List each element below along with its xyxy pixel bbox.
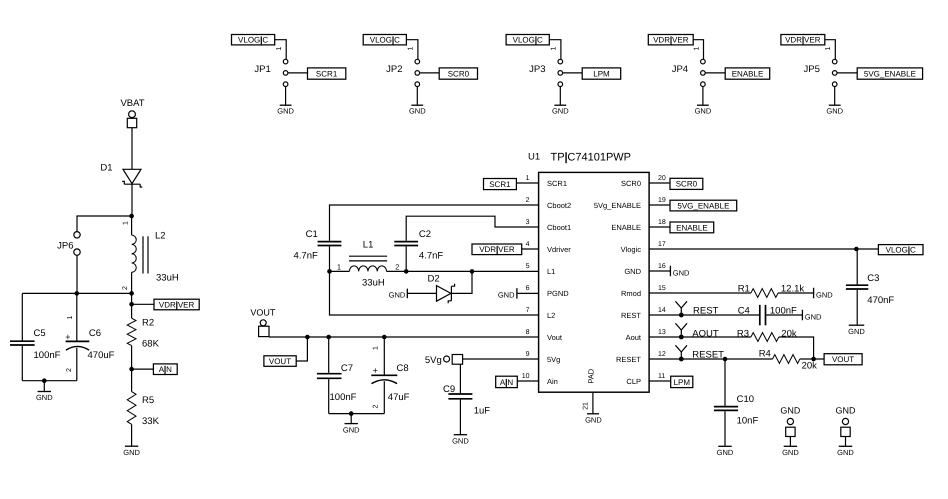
wire JP4 pin2 to ENABLE	[705, 72, 725, 74]
svg-text:470nF: 470nF	[867, 295, 894, 306]
svg-text:21: 21	[582, 402, 589, 410]
capacitor C5 100nF	[10, 293, 61, 380]
svg-text:RESET: RESET	[616, 355, 641, 364]
net label AIN (left)	[153, 364, 177, 375]
ground at JP5	[826, 105, 843, 115]
svg-text:LPM: LPM	[593, 69, 610, 78]
capacitor C7 100nF	[317, 337, 357, 414]
svg-text:2: 2	[395, 263, 399, 272]
node junction C7-C8 ground	[349, 411, 354, 416]
test point RESET	[675, 345, 687, 361]
svg-text:L2: L2	[155, 230, 166, 241]
svg-text:C9: C9	[443, 384, 455, 395]
node junction rail/C6	[75, 291, 80, 296]
node L1 pin1 junction	[327, 269, 332, 274]
svg-text:JP2: JP2	[386, 64, 402, 75]
svg-text:VDR|VER: VDR|VER	[479, 245, 515, 254]
svg-text:C2: C2	[419, 229, 431, 240]
svg-text:TP|C74101PWP: TP|C74101PWP	[551, 152, 632, 164]
svg-text:9: 9	[526, 351, 530, 358]
svg-text:SCR1: SCR1	[316, 69, 338, 78]
connector J-VOUT (VOUT post)	[250, 307, 276, 336]
svg-text:GND: GND	[826, 107, 843, 116]
svg-text:1: 1	[67, 315, 74, 319]
wire JP2 pin2 to SCR0	[420, 72, 440, 74]
pin 17 Vlogic (name+number)	[621, 241, 666, 254]
svg-text:U1: U1	[528, 152, 540, 163]
svg-text:C7: C7	[341, 363, 353, 374]
connector J-GND1 (ground post)	[780, 406, 801, 447]
svg-text:20k: 20k	[781, 328, 797, 339]
wire JP4 pin1	[693, 40, 703, 60]
svg-text:PGND: PGND	[547, 289, 569, 298]
svg-text:GND: GND	[123, 448, 140, 457]
pin 16 GND (name+number)	[624, 263, 666, 276]
svg-text:100nF: 100nF	[770, 306, 797, 317]
svg-text:C5: C5	[34, 328, 46, 339]
resistor R3 20k	[737, 328, 814, 359]
wire pin 6	[517, 292, 539, 294]
net label VLOGIC at JP1	[232, 35, 275, 45]
pin 5 L1 (name+number)	[526, 263, 556, 276]
jumper JP6	[57, 216, 131, 293]
svg-text:1uF: 1uF	[474, 406, 491, 417]
node junction at D1/L2/JP6	[129, 214, 134, 219]
svg-text:6: 6	[526, 285, 530, 292]
svg-text:3: 3	[526, 219, 530, 226]
svg-text:VDR|VER: VDR|VER	[653, 36, 689, 45]
svg-text:Vdriver: Vdriver	[547, 245, 571, 254]
wire D1 to node VBAT_SW	[131, 184, 133, 216]
node RESET/C10 junction	[723, 357, 728, 362]
connector J-VBAT (VBAT input post)	[120, 98, 144, 128]
svg-text:20: 20	[658, 175, 666, 182]
svg-text:47uF: 47uF	[388, 392, 410, 403]
svg-text:RESET: RESET	[692, 350, 724, 361]
svg-text:1: 1	[408, 46, 415, 50]
svg-text:1: 1	[693, 46, 700, 50]
ground at JP2	[409, 105, 426, 115]
svg-text:33uH: 33uH	[362, 277, 385, 288]
net label 5VG_ENABLE at JP5	[857, 68, 922, 79]
ground at JP3	[552, 105, 569, 115]
net label ENABLE at JP4	[725, 68, 770, 79]
svg-text:Vlogic: Vlogic	[621, 245, 642, 254]
net label VDRIVER at pin 4	[472, 244, 522, 255]
wire C5/C6 bottom rail	[22, 380, 77, 382]
ground below C10	[717, 446, 734, 457]
svg-text:GND: GND	[848, 327, 865, 336]
svg-text:CLP: CLP	[626, 377, 641, 386]
svg-text:Cboot2: Cboot2	[547, 201, 571, 210]
svg-text:A|N: A|N	[500, 378, 513, 387]
pin 20 SCR0 (name+number)	[621, 175, 666, 188]
node junction VDRIVER tap	[129, 302, 134, 307]
svg-text:GND: GND	[717, 448, 734, 457]
svg-text:GND: GND	[585, 416, 602, 425]
svg-text:GND: GND	[277, 107, 294, 116]
svg-text:R5: R5	[142, 395, 154, 406]
net label VLOGIC at pin 17	[878, 245, 923, 255]
svg-text:REST: REST	[693, 306, 719, 317]
svg-text:R1: R1	[738, 283, 750, 294]
resistor R4 20k	[759, 348, 824, 371]
net label VOUT (left)	[264, 356, 296, 367]
svg-text:100nF: 100nF	[34, 350, 61, 361]
svg-text:GND: GND	[816, 290, 833, 299]
svg-text:VOUT: VOUT	[269, 357, 291, 366]
svg-text:SCR0: SCR0	[676, 180, 698, 189]
svg-text:GND: GND	[343, 425, 360, 434]
svg-text:13: 13	[658, 329, 666, 336]
svg-text:L1: L1	[363, 240, 374, 251]
svg-text:AOUT: AOUT	[692, 328, 719, 339]
net label VLOGIC at JP3	[506, 35, 549, 45]
pin 21 PAD to ground	[582, 392, 602, 424]
node junction AIN tap	[129, 367, 134, 372]
svg-text:JP4: JP4	[672, 64, 688, 75]
svg-text:GND: GND	[836, 406, 857, 416]
op-amp U1 TPIC74101PWP (IC body)	[528, 152, 649, 393]
wire JP5 pin3 to ground	[834, 87, 836, 105]
wire pin 10	[517, 380, 538, 382]
svg-text:VLOG|C: VLOG|C	[513, 36, 543, 45]
pin 7 L2 (name+number)	[526, 307, 556, 320]
svg-text:SCR0: SCR0	[621, 179, 641, 188]
svg-text:R2: R2	[142, 318, 154, 329]
node L1 pin2 junction	[404, 269, 409, 274]
svg-text:ENABLE: ENABLE	[611, 223, 641, 232]
net label VDRIVER at JP4	[648, 35, 693, 45]
wire pin 8 Vout row	[269, 336, 539, 338]
svg-text:VLOG|C: VLOG|C	[238, 36, 268, 45]
svg-text:ENABLE: ENABLE	[676, 223, 708, 232]
pin 12 RESET (name+number)	[616, 351, 666, 364]
test point REST	[675, 301, 687, 317]
svg-text:GND: GND	[673, 268, 690, 277]
svg-text:SCR0: SCR0	[448, 69, 470, 78]
svg-text:10nF: 10nF	[737, 416, 759, 427]
jumper JP1 (3-pin header)	[254, 59, 287, 86]
diode D2 (zener) with ground	[389, 271, 472, 303]
svg-text:5Vg: 5Vg	[425, 355, 442, 366]
net label SCR0 at pin 20	[670, 178, 703, 189]
svg-text:C10: C10	[737, 394, 754, 405]
pin 9 5Vg (name+number)	[526, 351, 561, 364]
wire pin 18	[649, 226, 670, 228]
svg-text:1: 1	[372, 346, 379, 350]
svg-text:VLOG|C: VLOG|C	[886, 246, 916, 255]
svg-text:+: +	[373, 366, 378, 376]
wire pin 9 5Vg row	[463, 358, 539, 360]
node Vout/C7 junction	[326, 335, 331, 340]
svg-text:REST: REST	[621, 311, 641, 320]
capacitor C1 4.7nF	[294, 229, 342, 271]
pin 11 CLP (name+number)	[626, 373, 665, 386]
svg-text:2: 2	[66, 368, 73, 372]
svg-text:1: 1	[276, 46, 283, 50]
inductor L1 33uH	[330, 240, 407, 289]
svg-text:5Vg_ENABLE: 5Vg_ENABLE	[594, 201, 641, 210]
wire VBAT to D1	[131, 128, 133, 170]
svg-text:VLOG|C: VLOG|C	[370, 36, 400, 45]
svg-text:100nF: 100nF	[330, 392, 357, 403]
pin 18 ENABLE (name+number)	[611, 219, 666, 232]
svg-text:5: 5	[526, 263, 530, 270]
svg-text:2: 2	[372, 404, 379, 408]
svg-text:GND: GND	[389, 291, 406, 300]
jumper JP4 (3-pin header)	[672, 59, 705, 86]
svg-text:GND: GND	[782, 448, 799, 457]
svg-text:Cboot1: Cboot1	[547, 223, 571, 232]
svg-text:GND: GND	[837, 448, 854, 457]
wire pin 4	[522, 248, 539, 250]
pin 15 Rmod (name+number)	[621, 285, 666, 298]
connector J-5Vg (5Vg post)	[425, 355, 463, 367]
ground stub at pin 6 PGND	[498, 288, 517, 300]
svg-text:1: 1	[526, 175, 530, 182]
svg-text:GND: GND	[452, 436, 469, 445]
wire pin 20	[649, 182, 670, 184]
jumper JP2 (3-pin header)	[386, 59, 419, 86]
svg-text:1: 1	[337, 263, 341, 272]
wire JP4 pin3 to ground	[702, 87, 704, 105]
svg-text:470uF: 470uF	[88, 350, 115, 361]
svg-text:JP6: JP6	[57, 240, 73, 251]
svg-text:GND: GND	[36, 393, 53, 402]
svg-text:VOUT: VOUT	[250, 307, 276, 317]
net label VDRIVER (left)	[154, 299, 199, 310]
svg-text:2: 2	[526, 197, 530, 204]
ground stub after R1	[814, 288, 834, 300]
pin 10 Ain (name+number)	[522, 373, 558, 386]
node Vout/C8 junction	[382, 335, 387, 340]
ground at JP4	[695, 105, 712, 115]
svg-text:12.1k: 12.1k	[781, 283, 804, 294]
pin 8 Vout (name+number)	[526, 329, 563, 342]
jumper JP5 (3-pin header)	[804, 59, 837, 86]
wire to VOUT net label	[296, 337, 307, 361]
diode D1 (zener)	[100, 163, 142, 188]
capacitor C9 1uF	[443, 364, 490, 434]
inductor L2 33uH	[122, 216, 179, 293]
wire pin 2 Cboot2 to C1	[330, 205, 539, 241]
node junction rail/L2	[129, 291, 134, 296]
svg-text:C3: C3	[867, 273, 879, 284]
node Vlogic/C3 junction	[854, 247, 859, 252]
pin 13 Aout (name+number)	[626, 329, 666, 342]
node junction C5-C6 ground	[42, 378, 47, 383]
svg-text:GND: GND	[805, 312, 822, 321]
svg-text:D2: D2	[428, 274, 440, 285]
capacitor C2 4.7nF	[394, 229, 443, 271]
wire pin 5 L1 row	[406, 270, 538, 272]
svg-text:33uH: 33uH	[156, 273, 179, 284]
wire JP5 pin2 to 5VG_ENABLE	[837, 72, 857, 74]
svg-text:5VG_ENABLE: 5VG_ENABLE	[864, 69, 916, 78]
net label VLOGIC at JP2	[363, 35, 406, 45]
svg-text:D1: D1	[100, 163, 112, 174]
wire JP2 pin3 to ground	[416, 87, 418, 105]
svg-text:VBAT: VBAT	[120, 98, 144, 109]
svg-text:JP5: JP5	[804, 64, 820, 75]
jumper JP3 (3-pin header)	[529, 59, 562, 86]
wire pin 17 Vlogic	[649, 248, 878, 250]
pin 19 5Vg_ENABLE (name+number)	[594, 197, 666, 210]
svg-text:C8: C8	[397, 363, 409, 374]
wire JP3 pin3 to ground	[559, 87, 561, 105]
svg-text:68K: 68K	[142, 339, 160, 350]
net label ENABLE at pin 18	[670, 222, 714, 233]
pin 2 Cboot2 (name+number)	[526, 197, 572, 210]
wire pin 11	[649, 380, 671, 382]
svg-text:GND: GND	[498, 291, 515, 300]
wire pin 19	[649, 204, 670, 206]
net label SCR1 at JP1	[308, 68, 346, 79]
wire L2 to VDRIVER node	[131, 293, 133, 304]
svg-text:17: 17	[658, 241, 666, 248]
svg-text:VOUT: VOUT	[832, 355, 854, 364]
wire JP2 pin1	[406, 40, 418, 60]
svg-text:SCR1: SCR1	[489, 180, 511, 189]
test point AOUT	[675, 323, 687, 339]
svg-text:4.7nF: 4.7nF	[419, 250, 443, 261]
svg-text:4.7nF: 4.7nF	[294, 250, 318, 261]
svg-text:GND: GND	[409, 107, 426, 116]
ground below connector J-GND2	[837, 446, 854, 457]
svg-text:1: 1	[825, 46, 832, 50]
wire tap to VDRIVER label	[132, 303, 154, 305]
svg-text:1: 1	[123, 221, 130, 225]
svg-text:8: 8	[526, 329, 530, 336]
wire pin 12 RESET row	[649, 350, 772, 361]
ground stub at pin 16	[649, 266, 690, 278]
resistor R1 12.1k at pin 15 Rmod	[649, 283, 814, 297]
svg-text:R4: R4	[759, 348, 771, 359]
wire JP3 pin1	[549, 40, 561, 60]
svg-text:C6: C6	[89, 328, 101, 339]
net label VOUT at pin 12	[824, 354, 862, 365]
svg-text:A|N: A|N	[159, 365, 172, 374]
wire rail VBAT_SW to C5/C6	[22, 292, 131, 294]
pin 4 Vdriver (name+number)	[526, 241, 572, 254]
node Vout/VOUT-label junction	[305, 335, 310, 340]
svg-text:C1: C1	[306, 229, 318, 240]
wire C7/C8 bottom rail	[329, 413, 385, 415]
net label 5VG_ENABLE at pin 19	[670, 200, 737, 211]
ground below connector J-GND1	[782, 446, 799, 457]
pin 1 SCR1 (name+number)	[526, 175, 567, 188]
capacitor C6 470uF (polarized)	[65, 293, 114, 380]
wire pin 14 REST row	[649, 306, 760, 317]
pin 6 PGND (name+number)	[526, 285, 570, 298]
net label LPM at pin 11	[671, 376, 693, 387]
svg-text:16: 16	[658, 263, 666, 270]
svg-text:4: 4	[526, 241, 530, 248]
pin 14 REST (name+number)	[621, 307, 666, 320]
svg-text:Vout: Vout	[547, 333, 563, 342]
svg-text:JP3: JP3	[529, 64, 545, 75]
ground below C7/C8	[343, 414, 360, 435]
svg-text:VDR|VER: VDR|VER	[159, 300, 195, 309]
wire pin 1	[516, 182, 538, 184]
net label AIN at pin 10	[496, 376, 518, 387]
svg-text:12: 12	[658, 351, 666, 358]
svg-text:LPM: LPM	[674, 378, 691, 387]
svg-text:Rmod: Rmod	[621, 289, 641, 298]
wire JP5 pin1	[825, 40, 836, 60]
wire pin 7 L2 row	[330, 271, 539, 315]
net label SCR0 at JP2	[439, 68, 477, 79]
svg-text:14: 14	[658, 307, 666, 314]
ground below C9	[452, 435, 469, 446]
svg-text:PAD: PAD	[586, 368, 595, 383]
svg-text:L2: L2	[547, 311, 555, 320]
svg-text:SCR1: SCR1	[547, 179, 567, 188]
capacitor C4 100nF	[738, 305, 803, 325]
net label SCR1 at pin 1	[484, 179, 517, 190]
svg-text:11: 11	[658, 373, 665, 380]
wire JP1 pin1	[275, 40, 287, 60]
connector J-GND2 (ground post)	[836, 406, 857, 447]
wire pin 13 Aout row	[649, 328, 751, 339]
net label VDRIVER at JP5	[781, 35, 825, 45]
pin 3 Cboot1 (name+number)	[526, 219, 572, 232]
wire JP1 pin3 to ground	[285, 87, 287, 105]
svg-text:18: 18	[658, 219, 666, 226]
ground below C3	[848, 325, 865, 336]
resistor R2 68K	[127, 304, 159, 369]
svg-text:5VG_ENABLE: 5VG_ENABLE	[677, 201, 729, 210]
svg-text:Aout: Aout	[626, 333, 642, 342]
resistor R5 33K	[127, 369, 159, 446]
svg-text:Ain: Ain	[547, 377, 558, 386]
svg-text:R3: R3	[737, 328, 749, 339]
ground below R5	[123, 446, 140, 457]
svg-text:C4: C4	[738, 306, 750, 317]
ground stub after C4	[802, 310, 822, 322]
capacitor C10 10nF	[714, 359, 759, 446]
svg-text:JP1: JP1	[254, 64, 270, 75]
capacitor C3 470nF	[846, 249, 895, 325]
svg-text:VDR|VER: VDR|VER	[785, 36, 821, 45]
svg-text:1: 1	[551, 46, 558, 50]
wire tap to AIN label	[132, 368, 154, 370]
svg-text:10: 10	[522, 373, 530, 380]
svg-text:7: 7	[526, 307, 530, 314]
net label LPM at JP3	[582, 68, 621, 79]
ground below C5/C6	[36, 381, 53, 403]
svg-text:GND: GND	[695, 107, 712, 116]
ground at JP1	[277, 105, 294, 115]
svg-text:15: 15	[658, 285, 666, 292]
svg-text:20k: 20k	[802, 361, 818, 372]
svg-text:19: 19	[658, 197, 666, 204]
svg-text:GND: GND	[552, 107, 569, 116]
svg-text:2: 2	[122, 286, 129, 290]
wire JP3 pin2 to LPM	[563, 72, 583, 74]
svg-text:5Vg: 5Vg	[547, 355, 560, 364]
svg-text:GND: GND	[780, 406, 801, 416]
node R3/R4/VOUT junction	[811, 357, 816, 362]
svg-text:L1: L1	[547, 267, 555, 276]
svg-text:33K: 33K	[142, 416, 160, 427]
wire pin 3 Cboot1 to C2	[406, 216, 538, 241]
capacitor C8 47uF (polarized)	[371, 337, 409, 414]
wire JP1 pin2 to SCR1	[288, 72, 308, 74]
svg-text:ENABLE: ENABLE	[732, 69, 764, 78]
node D2 junction	[470, 269, 475, 274]
